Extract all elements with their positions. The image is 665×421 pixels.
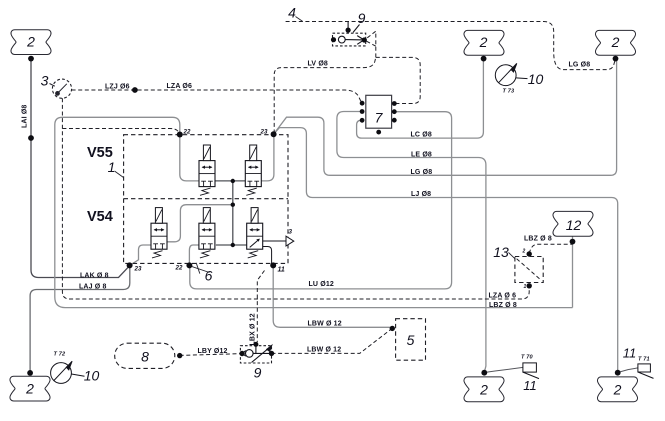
svg-text:10: 10 <box>528 71 544 87</box>
svg-text:9: 9 <box>254 365 262 381</box>
svg-text:11: 11 <box>623 346 637 361</box>
svg-text:10: 10 <box>84 368 100 384</box>
svg-text:2: 2 <box>25 381 34 397</box>
svg-text:V54: V54 <box>87 209 113 225</box>
svg-text:LBX Ø 12: LBX Ø 12 <box>250 313 257 345</box>
svg-text:LAI Ø8: LAI Ø8 <box>22 105 29 128</box>
svg-text:LBZ Ø 8: LBZ Ø 8 <box>524 236 552 243</box>
svg-text:22: 22 <box>175 265 183 272</box>
svg-text:5: 5 <box>407 332 415 348</box>
svg-text:3: 3 <box>41 73 49 89</box>
svg-text:LJ Ø8: LJ Ø8 <box>411 191 431 198</box>
svg-text:2: 2 <box>611 34 620 50</box>
svg-text:T 72: T 72 <box>54 352 67 358</box>
svg-text:LC Ø8: LC Ø8 <box>411 132 432 139</box>
svg-text:12: 12 <box>566 217 582 233</box>
svg-text:11: 11 <box>523 378 537 393</box>
svg-text:22: 22 <box>183 129 191 136</box>
svg-text:T 73: T 73 <box>503 89 516 95</box>
svg-text:4: 4 <box>288 5 296 21</box>
svg-text:13: 13 <box>493 244 509 260</box>
svg-text:3: 3 <box>289 229 293 236</box>
svg-text:23: 23 <box>260 129 268 136</box>
svg-text:LBY Ø12: LBY Ø12 <box>198 348 228 355</box>
svg-text:2: 2 <box>26 34 35 50</box>
svg-text:LG Ø8: LG Ø8 <box>411 169 433 176</box>
svg-text:LE Ø8: LE Ø8 <box>411 152 432 159</box>
svg-text:LBW Ø 12: LBW Ø 12 <box>307 347 341 354</box>
svg-text:7: 7 <box>375 110 384 126</box>
svg-text:8: 8 <box>141 349 149 365</box>
svg-text:V55: V55 <box>87 145 113 161</box>
svg-text:11: 11 <box>278 267 285 274</box>
svg-text:T 70: T 70 <box>521 355 534 361</box>
svg-text:LV Ø8: LV Ø8 <box>308 61 328 68</box>
svg-text:LAK Ø 8: LAK Ø 8 <box>80 272 109 279</box>
svg-text:2: 2 <box>479 382 488 398</box>
svg-text:1: 1 <box>108 159 116 175</box>
svg-text:LU Ø12: LU Ø12 <box>309 281 334 288</box>
svg-text:2: 2 <box>479 34 488 50</box>
svg-text:LZJ Ø6: LZJ Ø6 <box>105 84 130 91</box>
svg-text:LZA Ø6: LZA Ø6 <box>167 83 193 90</box>
svg-text:T 71: T 71 <box>638 357 650 363</box>
svg-text:LBW Ø 12: LBW Ø 12 <box>308 321 342 328</box>
svg-text:LG Ø8: LG Ø8 <box>569 62 591 69</box>
svg-text:6: 6 <box>205 268 213 284</box>
svg-text:2: 2 <box>613 382 622 398</box>
svg-text:LAJ Ø 8: LAJ Ø 8 <box>79 284 107 291</box>
svg-text:9: 9 <box>358 10 366 26</box>
svg-text:LBZ Ø 8: LBZ Ø 8 <box>489 302 517 309</box>
svg-text:LZA Ø 6: LZA Ø 6 <box>489 293 517 300</box>
svg-text:1: 1 <box>524 284 527 290</box>
svg-text:2: 2 <box>522 249 526 255</box>
svg-text:23: 23 <box>134 266 142 273</box>
